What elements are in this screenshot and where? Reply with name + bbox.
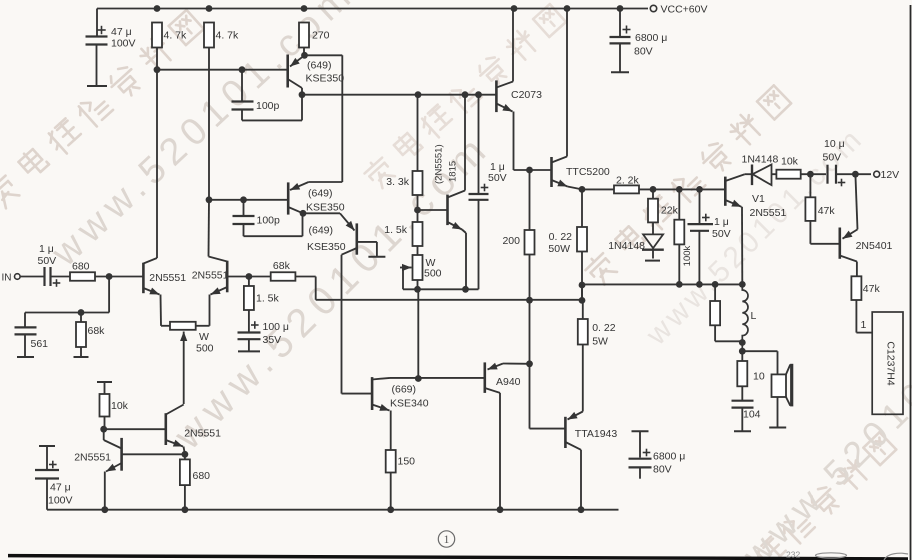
svg-text:1N4148: 1N4148 xyxy=(608,240,645,252)
svg-text:100V: 100V xyxy=(48,495,73,507)
svg-text:1815: 1815 xyxy=(448,161,459,182)
svg-text:2N5551: 2N5551 xyxy=(184,428,221,440)
svg-text:12V: 12V xyxy=(881,169,900,181)
svg-text:10: 10 xyxy=(753,371,765,383)
svg-text:1. 5k: 1. 5k xyxy=(256,293,280,305)
svg-text:10k: 10k xyxy=(111,400,129,412)
svg-text:(649): (649) xyxy=(309,225,334,237)
svg-text:10 μ: 10 μ xyxy=(824,138,845,150)
svg-text:TTA1943: TTA1943 xyxy=(575,428,618,440)
svg-text:47k: 47k xyxy=(863,283,881,295)
svg-text:100 μ: 100 μ xyxy=(263,321,290,333)
svg-text:1: 1 xyxy=(444,534,450,546)
svg-text:22k: 22k xyxy=(661,205,679,217)
svg-text:5W: 5W xyxy=(592,336,608,348)
svg-text:4. 7k: 4. 7k xyxy=(216,30,240,42)
svg-text:2N5551: 2N5551 xyxy=(750,207,787,219)
svg-text:(649): (649) xyxy=(308,188,333,200)
svg-text:10k: 10k xyxy=(781,156,799,168)
svg-text:KSE350: KSE350 xyxy=(307,241,346,253)
svg-text:68k: 68k xyxy=(88,325,106,337)
svg-text:C2073: C2073 xyxy=(511,89,542,101)
svg-text:1 μ: 1 μ xyxy=(714,216,729,228)
svg-text:2N5551: 2N5551 xyxy=(149,272,186,284)
svg-text:47k: 47k xyxy=(818,205,836,217)
svg-text:KSE340: KSE340 xyxy=(390,398,429,410)
svg-text:TTC5200: TTC5200 xyxy=(566,166,610,178)
svg-text:232: 232 xyxy=(786,550,800,560)
svg-text:104: 104 xyxy=(743,409,761,421)
svg-text:47 μ: 47 μ xyxy=(111,26,132,38)
svg-text:2N5551: 2N5551 xyxy=(74,452,111,464)
svg-text:1: 1 xyxy=(861,319,867,331)
svg-text:6800 μ: 6800 μ xyxy=(635,32,667,44)
svg-text:0. 22: 0. 22 xyxy=(592,322,616,334)
svg-text:561: 561 xyxy=(31,338,49,350)
svg-text:100p: 100p xyxy=(257,215,281,227)
svg-text:4. 7k: 4. 7k xyxy=(164,30,188,42)
svg-text:KSE350: KSE350 xyxy=(306,73,345,85)
svg-text:V1: V1 xyxy=(752,193,765,205)
svg-text:(669): (669) xyxy=(392,384,417,396)
svg-text:6800 μ: 6800 μ xyxy=(653,451,685,463)
svg-text:2N5551: 2N5551 xyxy=(192,270,229,282)
svg-text:200: 200 xyxy=(502,235,520,247)
svg-text:1N4148: 1N4148 xyxy=(742,154,779,166)
svg-text:80V: 80V xyxy=(653,464,672,476)
svg-text:2N5401: 2N5401 xyxy=(856,240,893,252)
svg-text:(2N5551): (2N5551) xyxy=(434,144,445,184)
svg-text:100k: 100k xyxy=(682,245,693,266)
svg-text:500: 500 xyxy=(424,268,442,280)
svg-text:L: L xyxy=(751,310,757,322)
svg-text:47 μ: 47 μ xyxy=(50,482,71,494)
svg-text:100p: 100p xyxy=(256,100,280,112)
svg-text:500: 500 xyxy=(196,343,214,355)
svg-text:C1237H4: C1237H4 xyxy=(885,341,897,386)
svg-text:150: 150 xyxy=(398,456,416,468)
svg-text:A940: A940 xyxy=(496,376,521,388)
svg-text:KSE350: KSE350 xyxy=(306,202,345,214)
svg-text:50V: 50V xyxy=(712,228,731,240)
svg-text:3. 3k: 3. 3k xyxy=(386,176,410,188)
svg-text:270: 270 xyxy=(312,30,330,42)
svg-text:80V: 80V xyxy=(634,46,653,58)
svg-text:1 μ: 1 μ xyxy=(39,243,54,255)
svg-text:50V: 50V xyxy=(488,172,507,184)
svg-text:0. 22: 0. 22 xyxy=(549,231,573,243)
svg-text:68k: 68k xyxy=(273,260,291,272)
svg-text:(649): (649) xyxy=(307,60,332,72)
svg-text:680: 680 xyxy=(72,261,90,273)
svg-text:35V: 35V xyxy=(263,334,282,346)
svg-text:100V: 100V xyxy=(111,38,136,50)
svg-text:1. 5k: 1. 5k xyxy=(384,224,408,236)
svg-text:W: W xyxy=(199,331,209,343)
svg-text:VCC+60V: VCC+60V xyxy=(661,4,708,16)
svg-text:680: 680 xyxy=(193,470,211,482)
svg-text:50V: 50V xyxy=(823,152,842,164)
svg-text:IN: IN xyxy=(2,273,12,284)
svg-text:50W: 50W xyxy=(548,243,570,255)
svg-text:2. 2k: 2. 2k xyxy=(616,175,640,187)
svg-text:50V: 50V xyxy=(38,255,57,267)
